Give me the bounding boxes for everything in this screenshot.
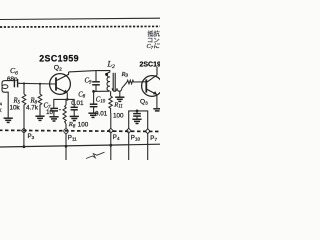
capacitor C11 [136,111,138,114]
wire: P11 to rail and below [65,133,67,160]
wire: R9 to Q3 base [134,81,146,83]
wire: Q2 emitter down [66,93,68,100]
junction dot base/R5 [23,82,25,84]
wire: top wire into L2 [96,71,110,73]
wire: input drop to ground [7,98,9,118]
ground (L2 secondary) [115,97,124,101]
wire: Q2 collector to tank [69,71,96,72]
wire: top dashed shield line [0,25,160,28]
Q2 emitter with arrow [56,87,67,92]
inductor L2 primary winding [107,72,110,90]
Q3 emitter with arrow [146,89,156,94]
junction dot C11 tap [136,110,139,113]
wire: tank bottom horizontal [94,90,110,92]
wire: R8 to P11 [65,124,67,129]
capacitor C7 [50,107,58,109]
svg-text:68p: 68p [7,76,18,83]
junction dot P11/rail [65,145,68,148]
inductor L2 secondary winding [112,88,122,91]
svg-text:100: 100 [113,113,124,120]
terminal P7 [145,129,150,134]
wire: emitter node to R8 [65,99,67,105]
ground (C11) [132,119,141,123]
input connector loop J1 [2,81,14,98]
svg-text:10: 10 [46,109,54,116]
wire: R5 down to P3 [23,105,25,129]
svg-text:10k: 10k [10,105,21,112]
phasing dot L2 [105,73,108,76]
wire: top solid horizontal line [0,18,160,19]
resistor R5 10k [23,84,25,95]
transistor Q3 [142,76,163,97]
wire: base line C6 to Q2 [18,82,56,85]
junction dot P4/rail [109,144,112,147]
svg-text:C7に: C7に [147,43,161,50]
ground (R6) [35,116,44,120]
ground (C8) [70,116,79,120]
wire: P4 to rail and below [110,133,112,160]
svg-text:100: 100 [78,121,89,128]
terminal P11 [64,129,68,133]
ground (input) [4,118,13,122]
wire: secondary to ground drop [119,91,121,96]
transistor Q2 [50,74,71,95]
resistor R6 4.7k [39,84,41,94]
ground (C10) [88,113,97,117]
capacitor C10 [93,91,95,104]
wire: secondary to R9 [122,82,127,88]
border frame background [0,0,160,160]
resistor R8 100 [63,105,66,124]
terminal P3 [22,128,27,133]
ground (Q3 emitter, cut at edge) [153,108,160,110]
core lines L2 [112,73,114,91]
junction dot base/R6 [39,83,41,85]
junction dot C10 tap [92,90,95,93]
junction dot P3/rail [23,145,26,148]
Q2 collector [56,72,69,81]
terminal P10 [126,128,131,133]
capacitor C6 [13,79,15,87]
wire: P3 to ground rail [23,133,25,147]
svg-text:0.01: 0.01 [71,100,84,107]
resistor R11 100 [110,91,112,96]
capacitor C9 [92,81,100,83]
wire: Q3 emitter down [156,94,158,108]
terminal P4 [108,128,113,133]
ground (C7) [49,117,58,121]
dashed shield wall line (bottom) [0,130,160,131]
handwritten mark [86,152,105,158]
wire: P10 to rail and below [128,133,130,160]
wire: emitter bus [54,99,74,108]
Q3 collector [146,67,157,83]
wire: emitter decoupling bus [129,111,148,129]
wire: P7 to rail and below [147,134,149,160]
wire: tank branch down [95,71,97,81]
wire: C9 to bottom wire [95,85,97,92]
wire: R11 to P4 [110,113,112,128]
wire: R6 down to ground [39,105,41,116]
svg-text:4.7k: 4.7k [26,105,39,112]
svg-text:2SC1959: 2SC1959 [39,53,79,63]
capacitor C8 [71,106,78,108]
ground rail [0,144,160,147]
junction dot emitter bus [66,98,69,101]
